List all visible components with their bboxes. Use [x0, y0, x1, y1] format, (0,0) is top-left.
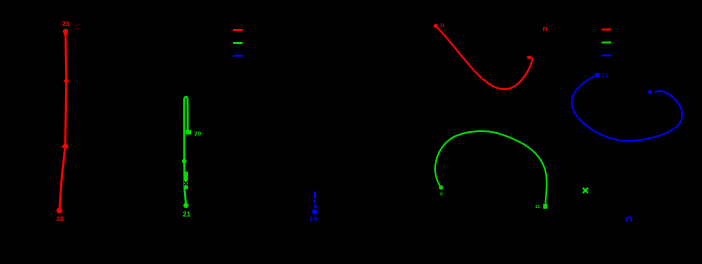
right plot: green arc trajectory — [435, 131, 547, 204]
left plot: red trajectory line — [60, 32, 67, 208]
right plot: blue loop start marker — [595, 73, 600, 78]
right plot: isolated green x marker — [583, 188, 588, 193]
left plot: blue short trajectory dashes — [313, 192, 316, 209]
svg-text:21: 21 — [183, 212, 191, 219]
svg-text:28: 28 — [56, 216, 64, 223]
left plot: red diamond marker 1 — [63, 78, 69, 84]
left plot: green thick bar segment — [184, 172, 188, 189]
right plot: red end marker — [527, 56, 530, 59]
svg-text:20: 20 — [194, 131, 201, 137]
svg-text:5: 5 — [440, 192, 443, 198]
right plot: green arc start label 5 — [440, 192, 443, 198]
left plot: black x marker over green bar — [184, 181, 188, 185]
right plot: green arc start marker — [439, 185, 443, 189]
left plot: green end label 21 — [183, 212, 191, 219]
svg-text:11: 11 — [440, 23, 445, 29]
left plot: legend green swatch — [233, 42, 243, 44]
left plot: red end marker — [57, 208, 63, 214]
left plot: green trajectory hairpin line — [184, 97, 188, 203]
left plot: green start marker — [186, 130, 191, 135]
left plot: red diamond marker 2 — [62, 143, 69, 150]
right plot: blue loop trajectory — [572, 76, 683, 141]
svg-text:23: 23 — [62, 21, 70, 28]
left plot: green end marker — [183, 203, 188, 208]
right plot: legend blue swatch — [602, 54, 612, 56]
right plot: green arc end marker — [543, 204, 547, 209]
left plot: green mid circle marker — [182, 159, 187, 164]
right plot: isolated red label n — [543, 24, 548, 33]
svg-text:n: n — [543, 24, 548, 33]
right plot: isolated blue arch marker — [627, 217, 632, 221]
left plot: red start marker — [63, 29, 68, 38]
right plot: legend green swatch — [602, 42, 612, 44]
left plot: legend blue swatch — [233, 55, 243, 57]
right plot: green arc end label 11 — [535, 204, 540, 210]
right plot: legend red swatch — [602, 29, 612, 31]
left plot: red end label 28 — [56, 216, 64, 223]
left plot: red start label 23 — [62, 21, 70, 28]
left plot: blue end marker — [312, 209, 318, 215]
left plot: green start label 20 — [194, 131, 201, 137]
right plot: blue loop start label 11 — [602, 73, 610, 79]
right plot: red start marker — [434, 24, 438, 28]
svg-text:11: 11 — [535, 204, 540, 210]
svg-text:26: 26 — [309, 216, 319, 223]
right plot: red start label 11 — [440, 23, 445, 29]
left plot: blue end label 26 — [309, 216, 319, 223]
svg-text:11: 11 — [602, 73, 610, 79]
right plot: blue loop end marker — [648, 90, 652, 94]
right plot: red U-shaped trajectory — [436, 26, 533, 89]
left plot: legend red swatch — [233, 29, 243, 31]
